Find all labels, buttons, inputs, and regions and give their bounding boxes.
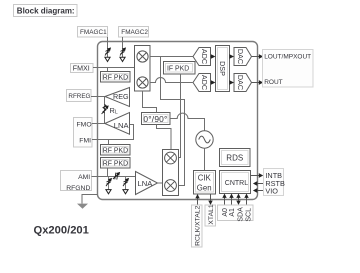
svg-text:RF PKD: RF PKD	[103, 161, 128, 168]
pin label RCLK/XTAL2	[192, 205, 203, 247]
node INTB RSTB VIO labels	[264, 169, 285, 196]
svg-text:DAC: DAC	[236, 75, 245, 90]
svg-text:AMI: AMI	[78, 174, 90, 181]
wire FMAGC2 down	[122, 37, 124, 57]
svg-text:ROUT: ROUT	[264, 79, 282, 86]
svg-text:RF PKD: RF PKD	[103, 148, 128, 155]
wire mixer2 to ADC2 with hop	[150, 78, 193, 83]
wire LNA AM to mixer box	[158, 182, 163, 184]
block RF PKD 2	[101, 145, 131, 156]
open arrow AM2	[123, 190, 128, 194]
wire FMI loop	[92, 125, 134, 140]
ground	[77, 204, 88, 209]
wire stub FMI to RF PKD2	[108, 140, 110, 145]
wire mixer1 to ADC1	[150, 56, 193, 58]
FM mixer box	[135, 46, 151, 92]
block RF PKD 1	[101, 72, 131, 83]
svg-text:CNTRL: CNTRL	[225, 180, 248, 187]
arrow ADC1-DSP	[211, 54, 216, 59]
wire 0/90 to osc with hop	[170, 113, 205, 131]
wire RFGND	[82, 195, 98, 204]
wire RSTB in + arrow	[253, 181, 264, 186]
svg-text:Qx200/201: Qx200/201	[34, 225, 89, 237]
block 0/90	[142, 113, 171, 125]
attenuator symbol AGC2	[120, 48, 125, 56]
svg-text:VIO: VIO	[265, 186, 278, 195]
block CIK Gen	[194, 171, 216, 195]
pin label FMXI	[71, 64, 94, 73]
pin label AMI RFGND	[61, 171, 92, 193]
arrow DSP-DAC2	[229, 80, 234, 85]
svg-text:SDA: SDA	[237, 207, 244, 222]
DAC 2	[234, 74, 252, 92]
open arrow AGC1	[105, 57, 110, 61]
svg-text:REG: REG	[113, 92, 129, 101]
mixer FM Q	[137, 77, 148, 88]
ADC 2	[193, 74, 211, 92]
svg-text:LOUT/MPXOUT: LOUT/MPXOUT	[264, 54, 311, 61]
svg-text:A1: A1	[229, 208, 236, 217]
wire INTB out + arrow	[251, 173, 264, 178]
svg-text:CIK: CIK	[198, 174, 212, 183]
wire AMI	[92, 176, 136, 178]
DAC 1	[234, 48, 252, 66]
mixer AM Q	[165, 180, 177, 192]
wire FMAGC1 down	[107, 37, 109, 57]
svg-text:FMAGC1: FMAGC1	[80, 29, 107, 36]
wire B IF PKD down to AM mixer	[179, 74, 181, 158]
wire A0 + arrow up	[222, 194, 226, 206]
wire DAC1 to LOUT + arrow	[252, 54, 264, 59]
arrow DSP-DAC1	[229, 54, 234, 59]
svg-text:SCL: SCL	[245, 208, 252, 222]
pin label RFREG	[67, 90, 92, 102]
svg-text:Gen: Gen	[197, 184, 212, 193]
wire SDA + arrows both	[236, 194, 240, 206]
svg-text:Block diagram:: Block diagram:	[17, 7, 75, 16]
wire stub RF PKD3 to AMI	[107, 168, 109, 177]
pin label FMAGC1	[78, 27, 108, 38]
mixer FM I	[137, 51, 148, 62]
svg-text:FMAGC2: FMAGC2	[121, 29, 148, 36]
svg-text:RFREG: RFREG	[68, 93, 90, 100]
chip outline	[98, 42, 258, 200]
svg-text:FMO: FMO	[77, 121, 92, 128]
block RF PKD 3	[101, 158, 131, 169]
wire DAC2 to ROUT + arrow	[252, 80, 264, 85]
svg-text:RFGND: RFGND	[66, 185, 90, 192]
op-amp LNA FM	[105, 113, 130, 135]
header "Block diagram:"	[14, 5, 78, 17]
pin label XTAL1	[205, 204, 216, 226]
wire FMXI	[93, 67, 135, 69]
wire 0/90 to AM mixer box	[157, 125, 172, 150]
wire RFREG	[91, 96, 105, 98]
wire VIO in + arrow	[253, 188, 264, 193]
svg-text:ADC: ADC	[200, 49, 209, 64]
open arrow AGC2	[120, 57, 125, 61]
wire RCLK/XTAL2 + arrow up	[195, 194, 199, 205]
svg-text:RDS: RDS	[226, 154, 243, 163]
arrow ADC2-DSP	[211, 80, 216, 85]
AM mixer box	[163, 150, 179, 196]
node LOUT/MPXOUT ROUT labels	[263, 50, 314, 88]
pin label box A0 A1 SDA SCL	[218, 205, 254, 222]
series varactor AM	[113, 173, 120, 180]
svg-text:IF PKD: IF PKD	[167, 66, 189, 73]
wire mixerbox to 0/90	[143, 91, 157, 113]
wire A1 + arrow up	[229, 194, 233, 206]
attenuator symbol AGC1	[105, 48, 110, 56]
mixer AM I	[165, 152, 177, 164]
wire A tap down	[161, 57, 185, 186]
op-amp LNA AM	[136, 172, 158, 195]
DSP	[216, 46, 230, 92]
wire SCL + arrow up	[244, 194, 248, 206]
wire XTAL1 + arrow down	[208, 194, 212, 205]
ADC 1	[193, 48, 211, 66]
svg-text:FMI: FMI	[79, 137, 91, 144]
op-amp REG	[105, 88, 130, 107]
pin label FMAGC2	[119, 27, 149, 38]
svg-text:XTAL1: XTAL1	[208, 204, 215, 224]
svg-text:RCLK/XTAL2: RCLK/XTAL2	[195, 205, 202, 246]
node bus REG-LNA	[104, 97, 106, 124]
svg-text:DAC: DAC	[236, 49, 245, 64]
pin label FMO FMI	[74, 118, 93, 148]
block CNTRL	[220, 171, 251, 194]
svg-text:A0: A0	[222, 208, 229, 217]
wire stub to RF PKD1	[107, 68, 109, 72]
open arrow AM1	[106, 190, 111, 194]
svg-text:DSP: DSP	[218, 61, 227, 76]
resistor RL	[102, 105, 109, 115]
svg-text:0°/90°: 0°/90°	[143, 114, 167, 124]
svg-text:ADC: ADC	[200, 75, 209, 90]
svg-text:RF PKD: RF PKD	[103, 75, 128, 82]
svg-text:LNA: LNA	[114, 121, 130, 130]
svg-text:LNA: LNA	[138, 179, 154, 188]
block RDS	[220, 149, 251, 167]
block IF PKD	[164, 62, 196, 75]
wire FMO	[92, 123, 105, 125]
oscillator	[196, 131, 213, 148]
svg-text:FMXI: FMXI	[73, 65, 90, 73]
varactor AM1	[106, 177, 111, 190]
varactor AM2	[123, 177, 128, 190]
wire osc to CIK Gen	[204, 148, 206, 170]
